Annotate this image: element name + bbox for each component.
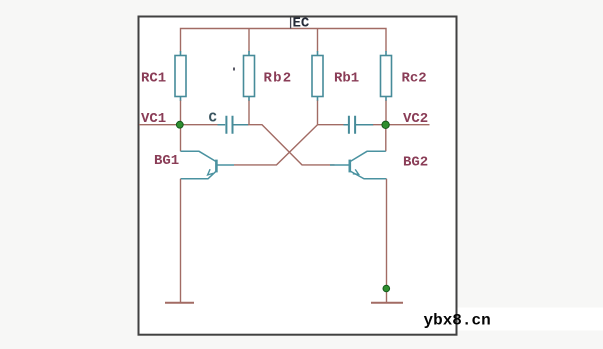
speck artifact (233, 68, 235, 71)
wire Rb2 top lead (248, 29, 250, 52)
svg-text:ybx8.cn: ybx8.cn (424, 312, 491, 330)
resistor Rb2 (244, 51, 255, 101)
ground left (165, 302, 194, 304)
svg-text:Rb1: Rb1 (334, 71, 359, 87)
wire EC top rail (181, 29, 387, 52)
capacitor C2 (344, 116, 374, 134)
wire cap C to cross (248, 125, 335, 165)
wire VC1 to BG1 collector (180, 125, 182, 152)
wire Rb2 bottom lead (248, 101, 250, 125)
transistor BG2 (330, 151, 387, 179)
svg-text:VC2: VC2 (403, 111, 428, 127)
wire cap C2 to VC2 (373, 124, 430, 126)
wire Rb1 node to cross (234, 125, 318, 165)
schematic frame (139, 17, 457, 335)
svg-text:C: C (209, 111, 218, 127)
resistor RC1 (175, 51, 186, 101)
wire BG2 emitter to ground (386, 179, 388, 303)
svg-text:RC1: RC1 (141, 71, 166, 87)
watermark box (348, 308, 603, 331)
svg-text:Rc2: Rc2 (402, 71, 427, 87)
transistor BG1 (181, 151, 235, 179)
svg-text:BG2: BG2 (403, 155, 428, 171)
wire BG1 emitter to ground (180, 179, 182, 303)
capacitor C (218, 116, 249, 134)
wire Rc2 bottom lead (385, 101, 387, 125)
node ground junction (383, 285, 390, 292)
node VC1 (176, 121, 183, 128)
wire Rb1 node to cap C2 (318, 124, 345, 126)
resistor Rc2 (381, 51, 392, 101)
wire RC1 bottom lead (180, 101, 182, 125)
svg-text:BG1: BG1 (154, 153, 179, 169)
ground right (371, 302, 403, 304)
wire VC1 stub (139, 124, 218, 126)
wire Rb1 top lead (317, 29, 319, 52)
wire Rb1 bottom lead (317, 101, 319, 125)
wire VC2 to BG2 collector (385, 125, 387, 152)
resistor Rb1 (312, 51, 323, 101)
svg-text:EC: EC (293, 16, 310, 32)
node EC tick (290, 18, 292, 29)
node VC2 (382, 121, 389, 128)
svg-text:Rb2: Rb2 (264, 71, 293, 87)
